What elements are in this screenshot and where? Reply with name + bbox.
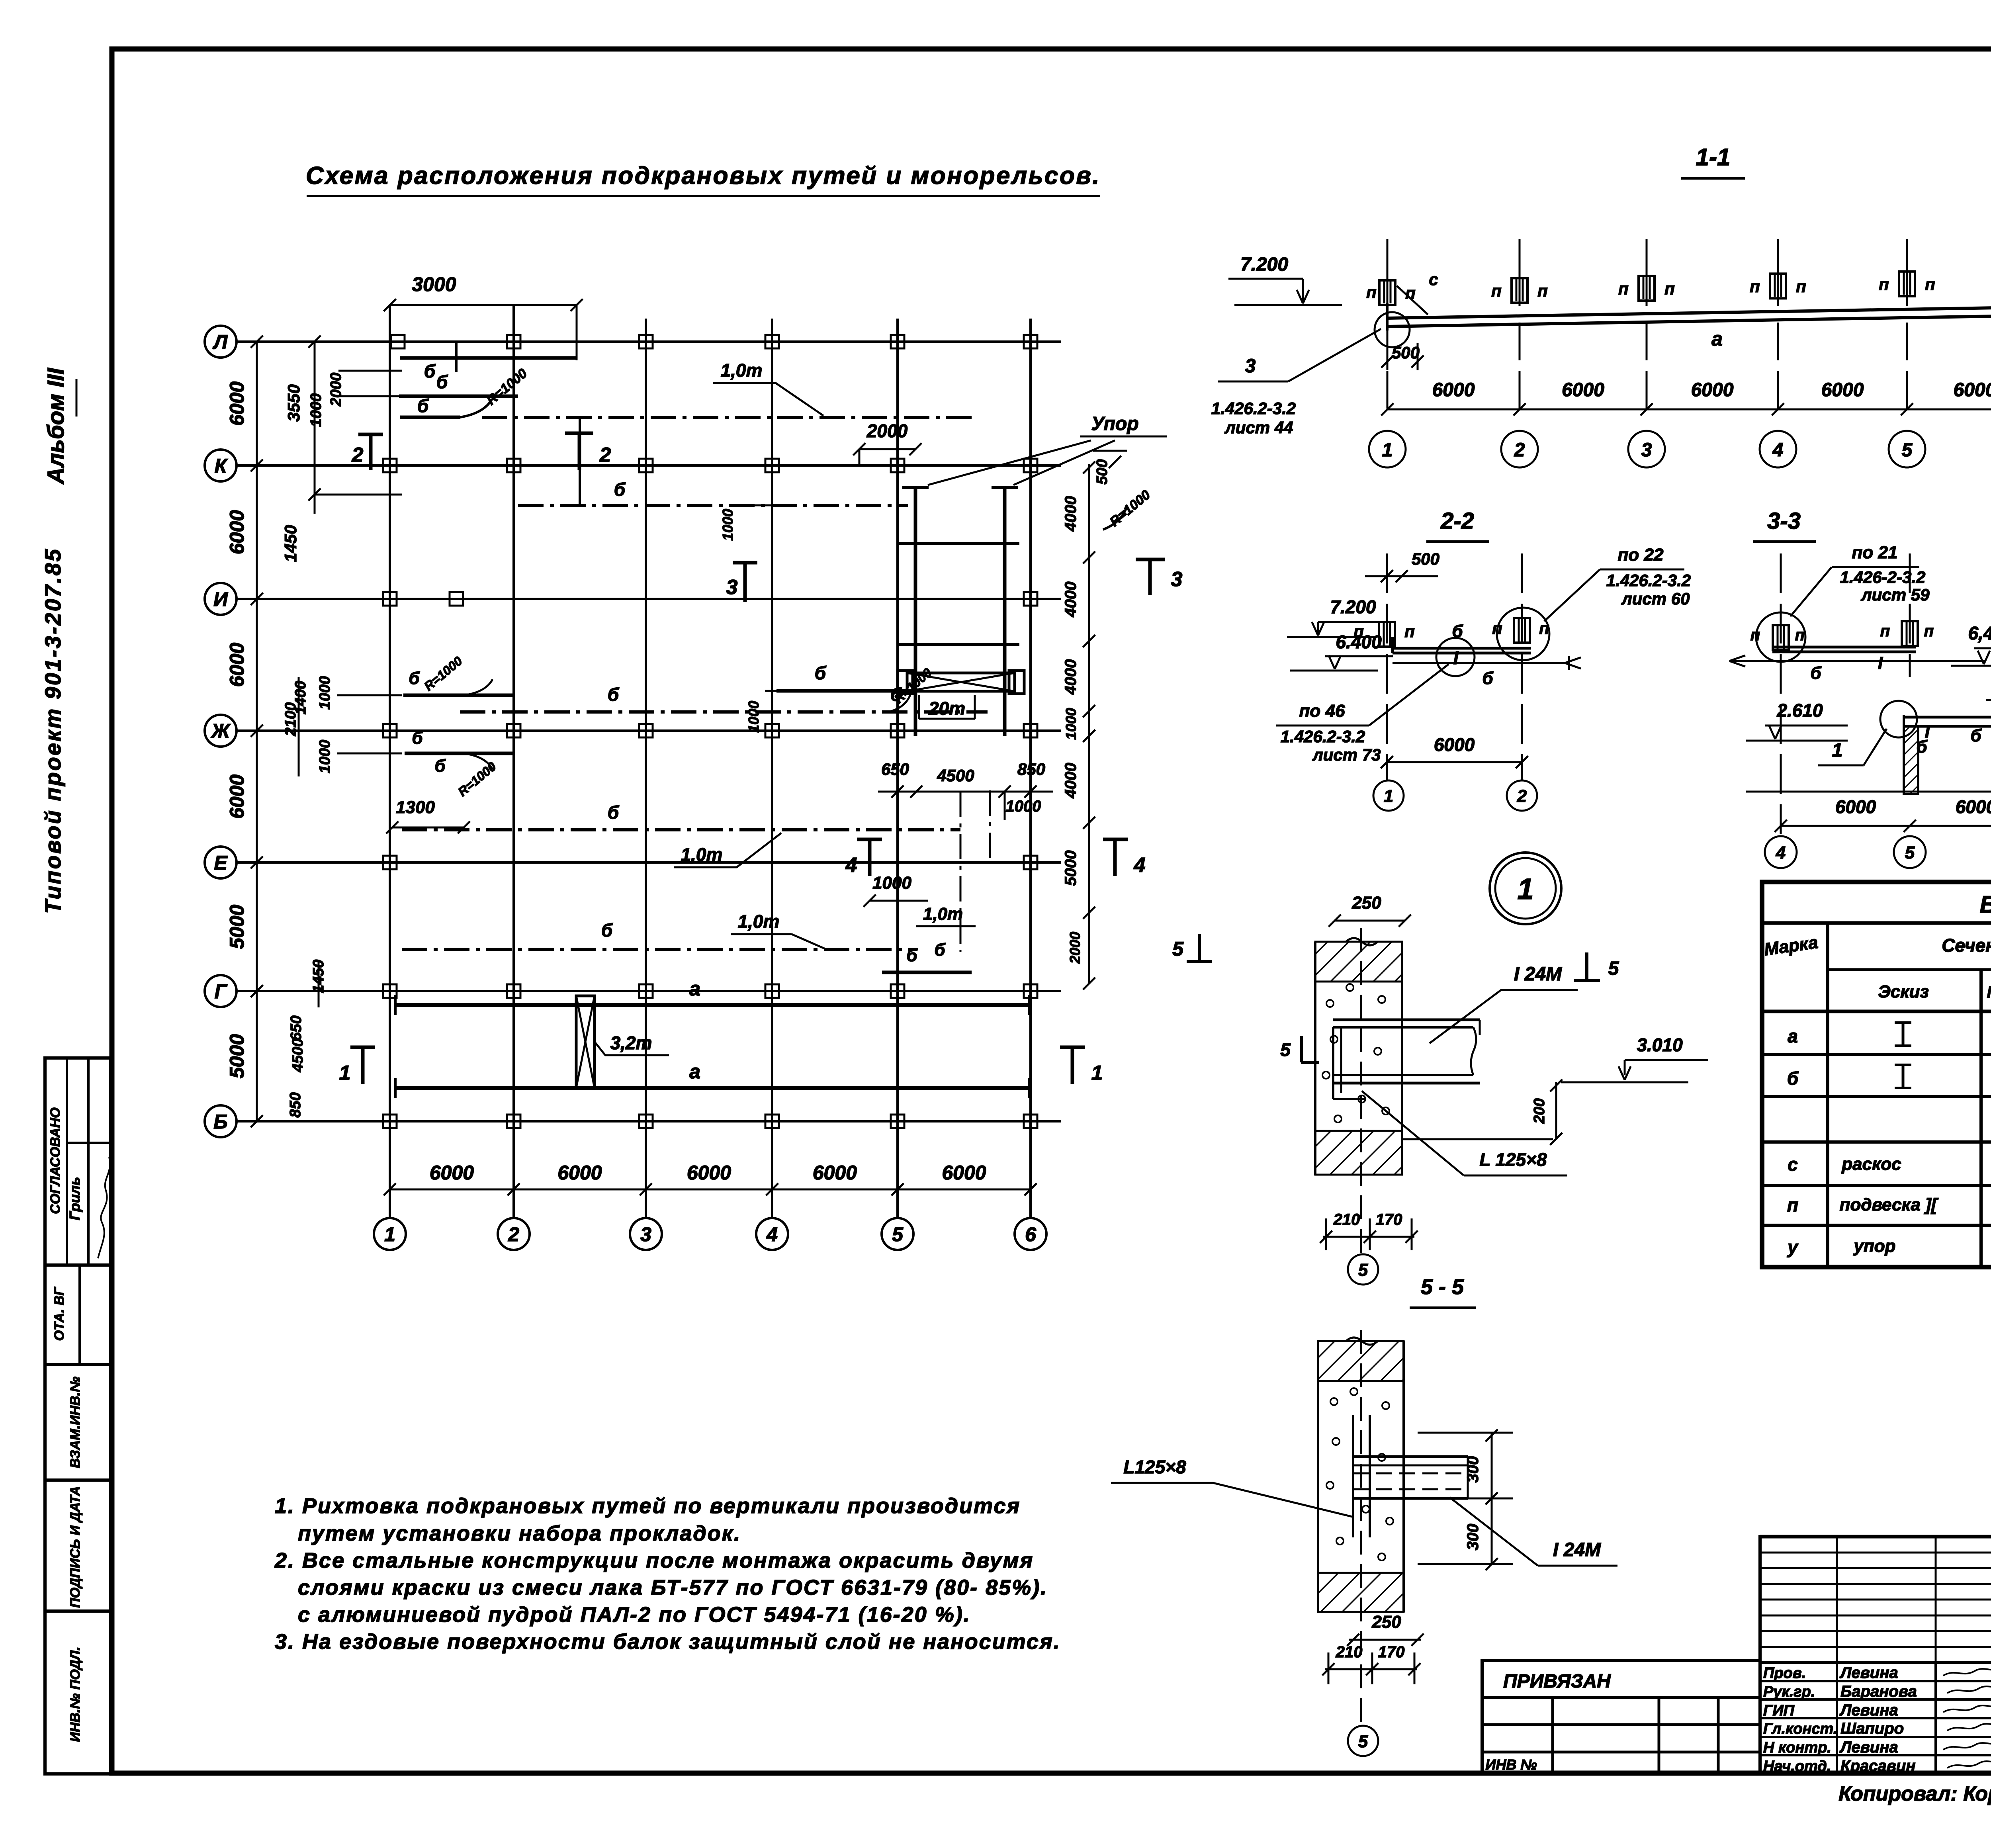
- hoist 20t label: [918, 695, 920, 719]
- svg-text:б: б: [1452, 622, 1463, 641]
- svg-text:1450: 1450: [281, 525, 300, 562]
- svg-text:1: 1: [339, 1062, 351, 1085]
- svg-text:по 46: по 46: [1299, 701, 1345, 721]
- title block tp cell: [1760, 1535, 1991, 1539]
- dims 300 300: [1491, 1433, 1493, 1565]
- svg-text:4: 4: [766, 1223, 778, 1246]
- beam b top-left 2: [399, 395, 518, 398]
- svg-text:п: п: [1491, 281, 1502, 300]
- svg-text:5 - 5: 5 - 5: [1421, 1275, 1464, 1299]
- svg-text:Сечение: Сечение: [1942, 935, 1991, 956]
- svg-text:1. Рихтовка подкрановых путей: 1. Рихтовка подкрановых путей по вертика…: [275, 1494, 1021, 1518]
- svg-text:Б: Б: [213, 1111, 227, 1133]
- svg-text:1,0т: 1,0т: [721, 360, 763, 381]
- upor rail left: [914, 487, 917, 736]
- section 3-3 lower beam: [1986, 699, 1991, 701]
- svg-text:250: 250: [1351, 893, 1381, 913]
- svg-text:2000: 2000: [328, 373, 344, 407]
- signature table names: [1760, 1661, 1991, 1664]
- svg-text:6.400: 6.400: [1336, 632, 1382, 652]
- beam b row Ж cols1-2 upper: [403, 694, 515, 697]
- svg-text:1000: 1000: [308, 393, 325, 427]
- svg-text:1000: 1000: [1006, 798, 1041, 815]
- svg-text:б: б: [436, 372, 448, 392]
- big node circle 1: [1490, 853, 1561, 924]
- svg-text:п: п: [1366, 283, 1377, 301]
- detail lower beam I24M: [1353, 1455, 1468, 1458]
- svg-text:4000: 4000: [1062, 659, 1080, 695]
- column squares: [391, 335, 405, 348]
- svg-text:ИНВ №: ИНВ №: [1485, 1756, 1537, 1773]
- svg-text:б: б: [608, 684, 620, 705]
- svg-text:слоями краски из смеси лака: слоями краски из смеси лака БТ-577 по ГО…: [298, 1576, 1048, 1600]
- section 1-1 hangers: [1379, 280, 1395, 305]
- svg-text:6000: 6000: [1954, 379, 1991, 401]
- section 3-3 floor line: [1746, 791, 1991, 793]
- svg-text:п: п: [1750, 277, 1760, 295]
- detail lower embedded angle: [1352, 1415, 1354, 1537]
- svg-text:1300: 1300: [396, 798, 435, 817]
- svg-text:L 125×8: L 125×8: [1479, 1149, 1547, 1170]
- svg-text:5: 5: [1358, 1732, 1368, 1751]
- svg-text:3.010: 3.010: [1637, 1034, 1683, 1055]
- hoist 20t crossed box: [907, 673, 1015, 691]
- svg-text:б: б: [1810, 663, 1822, 683]
- signature squiggle: [98, 1157, 110, 1258]
- svg-text:170: 170: [1378, 1643, 1405, 1661]
- section 2-2 column lines: [1386, 553, 1388, 780]
- svg-text:Г: Г: [215, 980, 228, 1003]
- svg-text:I 24М: I 24М: [1514, 964, 1562, 985]
- svg-text:6000: 6000: [813, 1162, 857, 1184]
- detail upper center dash line: [1360, 928, 1362, 1254]
- table header lines: [1828, 968, 1991, 971]
- svg-text:п: п: [1879, 275, 1889, 293]
- section 1-1 rail a: [1387, 307, 1991, 318]
- section mark 2 right: [565, 432, 593, 435]
- svg-text:а: а: [1788, 1026, 1798, 1046]
- svg-text:Эскиз: Эскиз: [1878, 982, 1929, 1001]
- svg-text:1: 1: [1384, 786, 1393, 806]
- svg-text:лист 73: лист 73: [1312, 745, 1381, 764]
- beam b row Ж cols1-2 lower: [405, 752, 515, 755]
- svg-text:Схема расположения подкрановых: Схема расположения подкрановых путей и м…: [306, 162, 1101, 190]
- svg-text:Н контр.: Н контр.: [1763, 1739, 1831, 1756]
- svg-text:Красавин: Красавин: [1840, 1757, 1916, 1775]
- svg-text:п: п: [1618, 279, 1629, 298]
- svg-text:3000: 3000: [412, 273, 456, 295]
- section 3-3 column lines: [1780, 553, 1782, 834]
- section 2-2 rail: [1393, 662, 1565, 664]
- svg-text:лист 60: лист 60: [1621, 589, 1690, 608]
- svg-text:20т: 20т: [928, 698, 965, 719]
- svg-text:б: б: [608, 802, 620, 823]
- svg-text:210: 210: [1336, 1643, 1363, 1661]
- svg-text:1000: 1000: [317, 676, 333, 710]
- upor rung 2: [899, 643, 1019, 646]
- svg-text:6000: 6000: [226, 774, 248, 819]
- svg-text:1-1: 1-1: [1696, 144, 1731, 170]
- svg-text:ИНВ.№ ПОДЛ.: ИНВ.№ ПОДЛ.: [68, 1647, 83, 1742]
- svg-text:Рук.гр.: Рук.гр.: [1763, 1684, 1815, 1700]
- detail upper axis circle 5: [1348, 1254, 1378, 1285]
- svg-text:4: 4: [1772, 440, 1784, 461]
- table row lines: [1762, 1053, 1991, 1056]
- left sub dim texts: [314, 342, 316, 514]
- svg-text:Левина: Левина: [1839, 1701, 1898, 1719]
- svg-text:б: б: [434, 756, 446, 776]
- svg-text:850: 850: [287, 1092, 304, 1117]
- svg-text:850: 850: [1017, 760, 1045, 778]
- svg-text:5: 5: [1608, 958, 1619, 979]
- svg-text:2000: 2000: [866, 420, 908, 441]
- svg-text:1: 1: [1091, 1062, 1103, 1085]
- svg-text:1.426.2-3.2: 1.426.2-3.2: [1606, 571, 1691, 590]
- svg-text:6000: 6000: [687, 1162, 731, 1184]
- section 2-2 I mark circle: [1436, 638, 1475, 676]
- svg-text:4000: 4000: [1062, 496, 1080, 532]
- svg-text:3: 3: [640, 1223, 651, 1246]
- left dim chain 6000: [256, 342, 258, 1121]
- section 2-2 hanger col2 circled: [1514, 618, 1530, 643]
- svg-text:п: п: [1664, 279, 1675, 298]
- svg-text:2: 2: [1514, 440, 1525, 461]
- section mark 4 left: [857, 838, 882, 841]
- section 1-1 column lines: [1387, 239, 1389, 306]
- svg-text:650: 650: [288, 1015, 305, 1040]
- svg-text:б: б: [1482, 669, 1494, 688]
- svg-text:Ж: Ж: [210, 720, 231, 742]
- svg-text:2-2: 2-2: [1440, 508, 1474, 534]
- svg-text:5: 5: [1280, 1039, 1291, 1060]
- stamp box column: [45, 1058, 111, 1774]
- svg-text:500: 500: [1094, 459, 1111, 484]
- crane rail a lower: [395, 1086, 1029, 1090]
- svg-text:3. На ездовые поверхности бало: 3. На ездовые поверхности балок защитный…: [275, 1630, 1061, 1654]
- svg-text:3,2т: 3,2т: [610, 1033, 652, 1053]
- svg-text:ВЗАМ.ИНВ.№: ВЗАМ.ИНВ.№: [68, 1377, 83, 1468]
- svg-text:б: б: [417, 395, 429, 416]
- svg-text:Поз.: Поз.: [1987, 984, 1991, 1001]
- svg-text:у: у: [1787, 1237, 1799, 1257]
- svg-text:путем установки набора проклад: путем установки набора прокладок.: [298, 1521, 741, 1545]
- svg-text:300: 300: [1464, 1456, 1482, 1483]
- monorail dash-dot К-И: [518, 504, 908, 507]
- monorail dash-dot Е-Г: [402, 948, 917, 951]
- svg-text:ПОДПИСЬ И ДАТА: ПОДПИСЬ И ДАТА: [68, 1486, 83, 1608]
- svg-text:б: б: [1970, 726, 1982, 745]
- svg-text:Гриль: Гриль: [66, 1177, 83, 1220]
- svg-text:I: I: [1878, 653, 1883, 673]
- svg-text:1: 1: [1832, 740, 1843, 761]
- section mark 3 left: [733, 561, 757, 565]
- svg-text:б: б: [1787, 1068, 1799, 1089]
- svg-text:п: п: [1925, 275, 1935, 293]
- section mark 1 left: [350, 1046, 375, 1049]
- bottom dim chain 6000: [390, 1189, 1031, 1191]
- signature squiggles: [1943, 1668, 1991, 1676]
- section 1-1 brace c col1: [1397, 286, 1428, 315]
- svg-text:Л: Л: [213, 331, 228, 353]
- svg-text:4: 4: [1134, 854, 1146, 877]
- vertical link beam: [579, 417, 581, 505]
- svg-text:по 22: по 22: [1618, 545, 1664, 565]
- section mark 4 right: [1103, 838, 1128, 841]
- svg-text:2: 2: [352, 444, 364, 467]
- svg-text:5: 5: [1902, 440, 1913, 461]
- upor rail right: [1003, 487, 1007, 736]
- svg-text:6000: 6000: [1434, 734, 1475, 755]
- detail upper wall: [1314, 942, 1316, 1175]
- svg-text:6000: 6000: [1821, 379, 1864, 401]
- svg-text:1: 1: [1382, 440, 1393, 461]
- svg-text:б: б: [906, 946, 918, 965]
- svg-text:п: п: [1880, 622, 1890, 640]
- svg-text:500: 500: [1392, 343, 1420, 362]
- svg-text:650: 650: [881, 760, 909, 778]
- section 3-3 upper rail: [1729, 660, 1986, 662]
- svg-text:1,0т: 1,0т: [738, 911, 780, 932]
- svg-text:1.426.2-3.2: 1.426.2-3.2: [1281, 727, 1365, 746]
- svg-text:1,0т: 1,0т: [923, 904, 963, 924]
- svg-text:6000: 6000: [1956, 796, 1991, 817]
- detail upper concrete dots: [1326, 1000, 1334, 1007]
- plan column grid lines: [389, 305, 391, 1217]
- svg-text:4: 4: [845, 854, 857, 877]
- section 1-1 circle col1: [1375, 312, 1410, 347]
- section mark 2 left: [358, 433, 383, 436]
- svg-text:4: 4: [1776, 843, 1786, 862]
- svg-text:5000: 5000: [226, 905, 248, 949]
- svg-text:I: I: [1453, 647, 1459, 668]
- beam b top-left 3 with curve: [400, 416, 460, 419]
- monorail dash-dot Л-К: [482, 416, 972, 419]
- svg-text:Левина: Левина: [1839, 1664, 1898, 1682]
- beam b top-left 1: [400, 356, 577, 360]
- mid dash-dot vertical 4500: [960, 792, 962, 952]
- svg-text:1,0т: 1,0т: [681, 844, 723, 865]
- label ota vg: [78, 1265, 81, 1365]
- section 3-3 node circle: [1880, 701, 1917, 737]
- section 1-1 axis circles: [1369, 431, 1406, 467]
- svg-text:2: 2: [508, 1223, 519, 1246]
- svg-text:2100: 2100: [282, 702, 299, 737]
- svg-text:Левина: Левина: [1839, 1738, 1898, 1756]
- svg-text:3550: 3550: [284, 384, 303, 421]
- svg-text:Типовой проект 901-3-207.85: Типовой проект 901-3-207.85: [40, 548, 65, 914]
- monorail dash-dot above Е: [402, 828, 960, 831]
- section mark 1 right: [1060, 1046, 1085, 1049]
- svg-text:СОГЛАСОВАНО: СОГЛАСОВАНО: [48, 1107, 63, 1214]
- svg-text:1000: 1000: [720, 509, 736, 541]
- hoist 3.2t crossed box: [576, 996, 595, 1088]
- svg-text:2. Все стальные конструкции по: 2. Все стальные конструкции после монтаж…: [274, 1549, 1034, 1572]
- detail lower concrete dots: [1330, 1398, 1338, 1405]
- svg-text:210: 210: [1333, 1211, 1360, 1228]
- section 2-2 axis circles: [1373, 780, 1404, 811]
- right dim chain: [1088, 464, 1090, 984]
- svg-text:6000: 6000: [1691, 379, 1734, 401]
- svg-text:п: п: [1537, 281, 1548, 300]
- plan row grid lines: [237, 340, 1061, 343]
- svg-text:1000: 1000: [1063, 708, 1079, 740]
- svg-text:7.200: 7.200: [1330, 596, 1376, 617]
- svg-text:6000: 6000: [942, 1162, 986, 1184]
- svg-text:1: 1: [1517, 872, 1533, 905]
- svg-text:п: п: [1404, 622, 1415, 641]
- svg-text:L125×8: L125×8: [1123, 1457, 1186, 1477]
- plan axis circles bottom: [389, 1217, 391, 1218]
- section 2-2 hanger col1: [1379, 622, 1395, 647]
- section 3-3 axis circles: [1765, 836, 1797, 868]
- svg-text:5: 5: [892, 1223, 904, 1246]
- svg-text:3-3: 3-3: [1767, 508, 1801, 534]
- privyazan box: [1482, 1660, 1760, 1697]
- signature table upper grid: [1760, 1537, 1991, 1662]
- svg-text:И: И: [213, 588, 228, 610]
- svg-text:К: К: [215, 455, 228, 477]
- svg-text:3: 3: [726, 576, 738, 599]
- svg-text:6000: 6000: [430, 1162, 474, 1184]
- svg-text:1000: 1000: [317, 740, 333, 774]
- svg-text:Нач.отд.: Нач.отд.: [1763, 1758, 1831, 1775]
- svg-text:5: 5: [1358, 1260, 1368, 1280]
- svg-text:3: 3: [1641, 440, 1652, 461]
- detail lower center dash line: [1360, 1330, 1362, 1724]
- svg-text:подвеска ][: подвеска ][: [1840, 1195, 1939, 1214]
- svg-text:Пров.: Пров.: [1763, 1665, 1806, 1682]
- svg-text:4000: 4000: [1062, 763, 1080, 799]
- svg-text:а: а: [689, 1060, 700, 1083]
- svg-text:1.426-2-3.2: 1.426-2-3.2: [1840, 568, 1926, 587]
- svg-text:3: 3: [1171, 568, 1183, 591]
- section mark 5 upper detail: [1585, 952, 1588, 980]
- svg-text:б: б: [934, 940, 946, 960]
- svg-text:б: б: [601, 920, 613, 941]
- svg-text:а: а: [1711, 328, 1723, 350]
- svg-text:170: 170: [1376, 1211, 1402, 1228]
- privyazan grid: [1481, 1697, 1484, 1774]
- section mark 3 right: [1136, 558, 1165, 561]
- svg-text:1000: 1000: [872, 873, 911, 893]
- svg-text:5: 5: [1172, 938, 1184, 960]
- svg-text:2.610: 2.610: [1776, 700, 1823, 721]
- svg-text:6000: 6000: [226, 381, 248, 426]
- svg-text:2000: 2000: [1067, 932, 1083, 964]
- svg-text:лист 59: лист 59: [1861, 585, 1930, 604]
- section 2-2 beam: [1393, 647, 1531, 650]
- svg-text:500: 500: [1412, 550, 1439, 568]
- svg-text:с алюминиевой пудрой ПАЛ-2 по: с алюминиевой пудрой ПАЛ-2 по ГОСТ 5494-…: [298, 1603, 971, 1627]
- svg-text:Альбом III: Альбом III: [43, 368, 69, 485]
- svg-text:6000: 6000: [1562, 379, 1604, 401]
- beam b row Ж cols4-5: [776, 689, 915, 693]
- short beam row Е-Г right: [882, 971, 972, 974]
- svg-text:Гл.конст.: Гл.конст.: [1763, 1721, 1837, 1737]
- section mark 5 right of plan: [1198, 934, 1201, 962]
- svg-text:б: б: [409, 669, 420, 688]
- svg-text:Е: Е: [214, 852, 228, 874]
- svg-text:I 24М: I 24М: [1553, 1539, 1601, 1561]
- svg-text:Копировал: Корецкая: Копировал: Корецкая: [1838, 1782, 1991, 1805]
- svg-text:2: 2: [1517, 786, 1527, 806]
- svg-text:п: п: [1787, 1195, 1798, 1215]
- svg-text:б: б: [424, 361, 436, 381]
- svg-text:по 21: по 21: [1852, 543, 1898, 562]
- svg-text:с: с: [1429, 270, 1438, 289]
- section 1-1 dim chain: [1387, 409, 1991, 411]
- svg-text:Упор: Упор: [1091, 413, 1138, 434]
- svg-text:упор: упор: [1853, 1236, 1895, 1256]
- svg-text:250: 250: [1371, 1612, 1401, 1632]
- svg-text:6000: 6000: [226, 643, 248, 687]
- svg-text:2: 2: [599, 444, 611, 467]
- detail upper angle: [1332, 1027, 1334, 1099]
- detail lower wall: [1317, 1341, 1319, 1612]
- svg-text:б: б: [815, 663, 827, 683]
- svg-text:лист 44: лист 44: [1224, 418, 1293, 437]
- detail lower axis circle 5: [1348, 1726, 1378, 1756]
- svg-text:4500: 4500: [289, 1038, 306, 1073]
- upor rung 1: [899, 542, 1019, 545]
- section 3-3 hanger col5: [1902, 621, 1918, 646]
- svg-text:раскос: раскос: [1841, 1154, 1901, 1174]
- svg-text:п: п: [1924, 622, 1934, 640]
- detail upper beam I24M: [1333, 1019, 1480, 1021]
- section 3-3 hanger col4 circled: [1773, 625, 1789, 650]
- svg-text:6000: 6000: [557, 1162, 602, 1184]
- svg-text:а: а: [689, 978, 700, 1000]
- svg-text:6000: 6000: [226, 510, 248, 554]
- svg-text:5000: 5000: [1062, 851, 1080, 886]
- svg-text:5: 5: [1905, 843, 1915, 862]
- svg-text:1.426.2-3.2: 1.426.2-3.2: [1211, 399, 1296, 418]
- svg-text:7.200: 7.200: [1240, 254, 1288, 275]
- svg-text:1: 1: [384, 1223, 395, 1246]
- right vertical dash-dot col5.5: [989, 790, 991, 862]
- svg-text:Шапиро: Шапиро: [1840, 1720, 1904, 1737]
- svg-text:Баранова: Баранова: [1840, 1683, 1917, 1700]
- svg-text:300: 300: [1464, 1524, 1482, 1551]
- svg-text:6000: 6000: [1432, 379, 1475, 401]
- svg-text:3: 3: [1245, 356, 1256, 377]
- svg-text:ОТА. ВГ: ОТА. ВГ: [52, 1286, 67, 1341]
- svg-text:Ведомость элементов: Ведомость элементов: [1980, 891, 1991, 918]
- svg-text:4000: 4000: [1062, 582, 1080, 618]
- svg-text:5000: 5000: [226, 1034, 248, 1078]
- section 3-3 column col5: [1904, 726, 1918, 794]
- svg-text:200: 200: [1531, 1098, 1548, 1124]
- element table frame: [1762, 882, 1991, 1267]
- section 3-3 upper beam: [1772, 646, 1916, 649]
- top dim 3000: [390, 304, 577, 306]
- svg-text:с: с: [1788, 1154, 1798, 1175]
- svg-text:п: п: [1796, 277, 1806, 295]
- svg-text:б: б: [412, 728, 423, 748]
- plan axis circles left: [205, 326, 237, 358]
- svg-text:б: б: [614, 479, 626, 500]
- svg-text:6: 6: [1025, 1223, 1037, 1246]
- svg-text:ГИП: ГИП: [1763, 1702, 1795, 1719]
- svg-text:6000: 6000: [1835, 796, 1876, 817]
- svg-text:1000: 1000: [745, 701, 762, 733]
- svg-text:ПРИВЯЗАН: ПРИВЯЗАН: [1503, 1671, 1611, 1692]
- crane rail a upper: [395, 1003, 1029, 1007]
- monorail dash-dot Ж: [460, 710, 988, 714]
- svg-text:4500: 4500: [937, 766, 974, 785]
- svg-text:6,400: 6,400: [1968, 623, 1991, 643]
